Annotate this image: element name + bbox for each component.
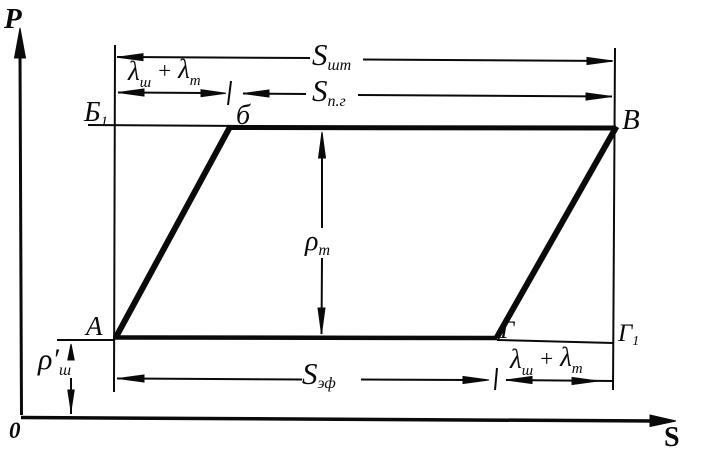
wire leader left of A <box>57 339 115 341</box>
svg-text:P: P <box>3 3 22 35</box>
extension line left (through A) <box>114 45 115 392</box>
dimension S_п.г line <box>243 90 612 100</box>
extension line right (through B) <box>613 48 615 390</box>
dimension ρm (vertical) <box>318 132 326 334</box>
svg-text:S: S <box>664 422 680 453</box>
parallelogram left slant A-Б (thick) <box>116 126 231 338</box>
svg-text:0: 0 <box>9 418 21 443</box>
dimension P'ш (vertical, left) <box>68 344 74 414</box>
parallelogram top side Б-В (thick) <box>230 125 616 131</box>
node tick at Г <box>495 368 497 390</box>
dimension S_эф line <box>117 375 489 384</box>
svg-text:А: А <box>84 311 103 341</box>
svg-text:В: В <box>622 104 640 136</box>
parallelogram right slant Г-В (thick) <box>497 127 617 339</box>
parallelogram bottom side A-Г (thick) <box>113 335 497 340</box>
svg-text:б: б <box>236 100 251 131</box>
dimension λш+λm (top) line <box>118 89 226 97</box>
dimension λш+λm (bottom) line <box>506 377 613 385</box>
axis P (vertical) <box>15 28 26 415</box>
node tick at Б <box>228 81 231 105</box>
wire leader Б1 level <box>88 125 246 126</box>
axis S (horizontal) <box>21 415 676 427</box>
svg-text:Г: Г <box>499 317 516 344</box>
dimension S_шт line <box>117 54 613 65</box>
wire leader Г to Г1 <box>497 340 613 343</box>
